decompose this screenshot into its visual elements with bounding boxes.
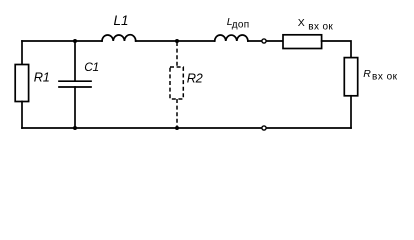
svg-text:R2: R2 — [187, 71, 203, 86]
wire bottom rail — [22, 127, 351, 129]
wire left vertical (top corner to R1) — [21, 41, 23, 65]
wire R1 bottom to bottom rail — [21, 102, 23, 129]
resistor R1 — [15, 65, 28, 102]
wire C1 bottom lead — [74, 87, 76, 128]
svg-text:Х: Х — [298, 17, 305, 29]
node: junction C1 top — [73, 39, 77, 43]
terminal bottom (open circle) — [262, 126, 266, 130]
wire L1 to Ldop — [136, 40, 215, 42]
wire top rail: corner to L1 — [22, 40, 102, 42]
wire box to right corner, down to Rvx ok — [322, 41, 351, 58]
box Xvx ok — [283, 35, 322, 49]
wire C1 top lead — [74, 41, 76, 81]
inductor Ldop — [215, 35, 248, 41]
wire Ldop to terminal — [248, 40, 283, 42]
inductor L1 — [102, 35, 136, 41]
wire dashed bottom lead of R2 — [176, 99, 178, 127]
svg-text:R1: R1 — [34, 69, 50, 84]
node: junction C1 bottom — [73, 126, 77, 130]
wire dashed top lead of R2 — [176, 42, 178, 67]
node: junction R2 top — [175, 39, 179, 43]
terminal top (open circle) — [262, 39, 266, 43]
capacitor C1 — [59, 81, 91, 87]
svg-text:вх ок: вх ок — [308, 21, 333, 32]
node: junction R2 bottom — [175, 126, 179, 130]
svg-text:L1: L1 — [114, 13, 129, 28]
svg-text:доп: доп — [232, 20, 250, 31]
wire Rvx ok bottom to bottom rail — [350, 96, 352, 128]
svg-text:C1: C1 — [84, 60, 98, 74]
resistor R2 (dashed) — [170, 67, 183, 99]
svg-text:R: R — [363, 68, 371, 80]
svg-text:вх ок: вх ок — [372, 72, 398, 83]
resistor Rvx ok — [344, 58, 357, 96]
